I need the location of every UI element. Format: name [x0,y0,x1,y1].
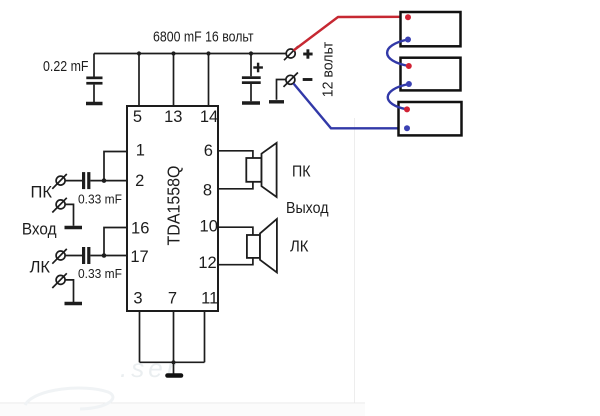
capacitor C3 0.33 mF (ПК) [82,172,90,189]
junction dot pin13 [171,51,175,55]
watermark letters [120,353,179,383]
label ЛК input [30,259,51,277]
terminal dot B2 plus [406,63,412,69]
junction dot pin2 [102,178,107,183]
wire connector to C4 [65,255,82,257]
label C3 value [78,191,122,206]
connector J- supply [284,73,298,87]
plus sign C2 polarity [253,63,263,73]
op-amp IC U1 TDA1558Q body [127,106,218,311]
label C4 value [78,266,122,281]
svg-text:16: 16 [131,219,149,237]
ground (C2) [242,101,260,104]
terminal dot B1 plus [405,14,411,20]
pin 2 [135,172,144,190]
wire supply bus [94,53,286,55]
blue jumper B2 to B3 [388,84,409,109]
pin 11 [201,289,218,307]
label C2 value 6800 mF 16 вольт [153,29,254,46]
svg-text:TDA1558Q: TDA1558Q [164,166,184,246]
wire connector to C3 [65,180,82,182]
svg-text:ПК: ПК [31,184,53,202]
pin 12 [198,254,216,272]
junction dot pin14 [206,51,210,55]
svg-text:ЛК: ЛК [30,259,51,277]
terminal dot B3 plus [404,106,410,112]
terminal dot B3 minus [404,125,410,131]
battery B1 [401,12,461,46]
svg-text:1: 1 [136,142,145,160]
wire pin 14 to bus [208,54,210,107]
svg-text:6: 6 [204,142,213,160]
svg-text:12 вольт: 12 вольт [320,42,337,98]
svg-text:13: 13 [164,108,182,126]
wire pin 6 to speaker LS1 [218,151,253,159]
label 12 вольт [320,42,337,98]
connector J gnd2 [52,273,67,288]
pin 3 [133,289,142,307]
label ПК output [292,164,311,181]
speaker LS2 (ЛК) [247,219,277,273]
svg-text:ЛК: ЛК [290,239,309,256]
scan edge artifact vertical [354,118,356,403]
plus sign supply [303,49,312,58]
capacitor C2 6800 mF electrolytic [242,51,261,101]
wire gnd1 [65,204,74,225]
svg-text:17: 17 [130,248,148,266]
red wire + to battery B1 [294,17,409,51]
ground (input 2) [65,302,83,305]
junction dot pin17 [102,253,107,258]
label ЛК output [290,239,309,256]
ground (IC) [168,373,182,378]
ground (input 1) [65,226,83,229]
svg-text:ПК: ПК [292,164,311,181]
wire pin 8 to speaker LS1 [218,181,253,189]
pin 17 [130,248,148,266]
svg-text:Выход: Выход [286,200,329,217]
pin 6 [204,142,213,160]
connector J gnd1 [52,198,67,213]
pin 8 [203,181,212,199]
pin 1 [136,142,145,160]
speaker LS1 (ПК) [246,143,276,197]
svg-text:Вход: Вход [22,221,57,239]
minus sign supply [303,78,313,81]
svg-text:12: 12 [198,254,216,272]
label C1 value 0.22 mF [43,58,89,75]
label Вход [22,221,57,239]
svg-text:0.33 mF: 0.33 mF [78,191,122,206]
svg-text:7: 7 [168,289,177,307]
IC label TDA1558Q [164,166,184,246]
wire ground bus bottom [140,361,205,363]
connector J ПК input [52,174,67,189]
connector J+ supply [284,46,298,60]
wire C3 to pins 1,2 [90,152,127,181]
wire pin 7 to ground [173,311,175,374]
junction dot pin7 ground [171,360,175,364]
wire pin 3 to ground bus [139,311,141,362]
wire J- to ground [277,80,286,100]
svg-text:2: 2 [135,172,144,190]
capacitor C4 0.33 mF (ЛК) [82,247,90,264]
connector J ЛК input [52,249,67,264]
scan edge artifact horizontal [0,403,365,416]
terminal dot B1 minus [405,37,411,43]
svg-text:.ser: .ser [120,353,179,383]
battery B2 [401,58,461,91]
svg-text:10: 10 [200,218,218,236]
battery B3 [399,102,462,135]
blue jumper B1 to B2 [387,40,409,67]
wire C4 to pins 16,17 [90,228,127,256]
wire pin 11 to ground bus [204,311,206,362]
wire pin 13 to bus [173,54,175,107]
svg-text:14: 14 [200,108,218,126]
wire pin 10 to speaker LS2 [218,227,253,235]
ground (C1) [86,102,103,105]
junction dot pin5 [137,51,141,55]
wire gnd2 [65,280,74,302]
terminal dot B2 minus [406,81,412,87]
ground (J-) [269,100,284,103]
svg-text:8: 8 [203,181,212,199]
svg-text:0.22 mF: 0.22 mF [43,58,89,75]
pin 5 [133,108,142,126]
pin 13 [164,108,182,126]
svg-text:3: 3 [133,289,142,307]
wire pin 12 to speaker LS2 [218,257,253,264]
svg-text:0.33 mF: 0.33 mF [78,266,122,281]
blue wire - to battery B3 [294,84,408,129]
svg-text:5: 5 [133,108,142,126]
pin 7 [168,289,177,307]
svg-text:6800 mF 16 вольт: 6800 mF 16 вольт [153,29,254,46]
pin 16 [131,219,149,237]
capacitor C1 0.22 mF [86,54,102,103]
label Выход [286,200,329,217]
svg-text:11: 11 [201,289,218,307]
watermark smudge bottom left [25,388,113,409]
pin 10 [200,218,218,236]
label ПК input [31,184,53,202]
pin 14 [200,108,218,126]
wire pin 5 to bus [138,54,140,107]
